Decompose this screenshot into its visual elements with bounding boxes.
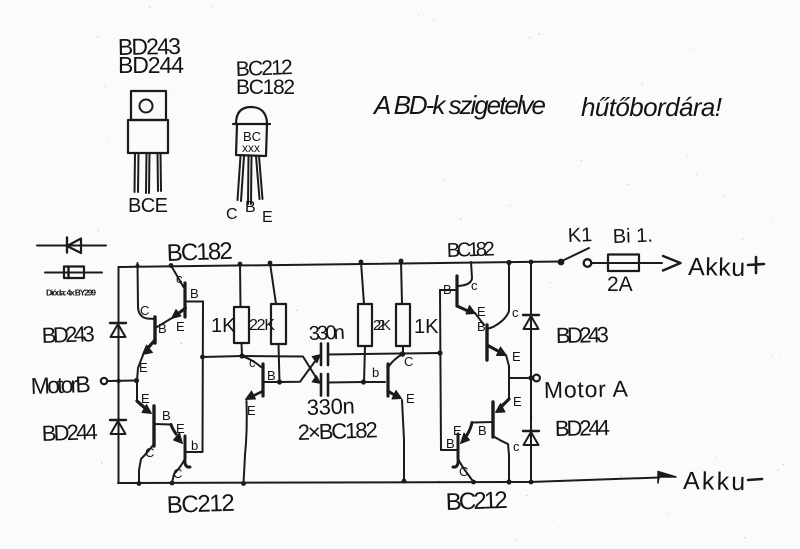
- wire node A to capacitor C2 (crossing diagonal): [242, 356, 319, 382]
- svg-text:Dióda: 4x BY299: Dióda: 4x BY299: [46, 288, 96, 298]
- svg-text:B: B: [162, 408, 171, 423]
- svg-text:Bi 1.: Bi 1.: [612, 225, 653, 248]
- svg-text:MotorB: MotorB: [30, 371, 91, 399]
- svg-text:B: B: [477, 319, 486, 334]
- svg-text:b: b: [372, 365, 379, 380]
- wire top supply bus: [119, 262, 562, 268]
- transistor Q3 base lead: [154, 423, 171, 426]
- svg-text:K1: K1: [567, 224, 592, 247]
- capacitor C1 330n top: [321, 344, 328, 366]
- svg-text:B: B: [478, 423, 487, 438]
- wire node B to right base column: [403, 352, 441, 355]
- svg-text:B: B: [443, 282, 452, 297]
- svg-text:xxx: xxx: [242, 141, 260, 155]
- transistor Q2 BD243 left: collector wire from bus: [138, 263, 156, 319]
- wire right diode column: [530, 262, 532, 482]
- svg-text:C: C: [404, 354, 413, 369]
- svg-text:c: c: [513, 439, 520, 454]
- wire base column left (Q1 base to Q4 base): [202, 302, 205, 453]
- transistor Q9 bar: [491, 402, 494, 437]
- svg-text:330n: 330n: [308, 322, 345, 345]
- transistor Q2 emitter arrow: [147, 340, 155, 349]
- transistor Q4 BC212 bottom-left: emitter arrow: [171, 425, 176, 435]
- transistor Q7 BC182 top-right: collector lead: [459, 262, 473, 286]
- transistor Q3 emitter arrow: [137, 401, 146, 409]
- transistor Q1 bar: [183, 283, 186, 317]
- svg-text:B: B: [267, 368, 276, 383]
- resistor R1 1K left: [234, 264, 249, 356]
- wire Q5 base to capacitor C1 (crossing diagonal): [281, 357, 319, 383]
- transistor Q4 collector lead: [172, 459, 185, 483]
- svg-text:C: C: [140, 303, 149, 318]
- svg-text:E: E: [513, 394, 522, 409]
- transistor Q5 BC182 multivibrator left: collector lead: [242, 356, 261, 367]
- svg-text:hűtőbordára!: hűtőbordára!: [581, 92, 722, 122]
- transistor Q6 emitter arrow: [388, 391, 396, 396]
- transistor Q10 base lead: [441, 449, 458, 451]
- wire Q2 emitter to motor node: [137, 355, 143, 381]
- wire Q7 emitter to Q8 base: [475, 313, 484, 325]
- capacitor C2 330n bottom: [321, 374, 328, 396]
- diode D3 (BD243 right flyback): [523, 315, 539, 329]
- legend diode symbol BY299: [37, 238, 106, 254]
- transistor Q6 BC182 multivibrator right: collector lead: [389, 354, 403, 366]
- transistor Q3 collector lead: [139, 444, 154, 484]
- node right base column junction: [437, 350, 442, 355]
- svg-text:C: C: [145, 445, 154, 460]
- node motor B terminal: [101, 378, 107, 384]
- svg-text:Motor A: Motor A: [544, 376, 629, 403]
- transistor Q5 bar: [261, 364, 264, 396]
- svg-text:E: E: [247, 403, 256, 418]
- svg-text:BC212: BC212: [166, 490, 235, 519]
- transistor Q10 collector lead: [458, 459, 474, 482]
- wire motor B node: [108, 380, 137, 383]
- wire base column right (Q7 base to Q10 base): [440, 290, 441, 450]
- wire switch to fuse to arrow: [592, 262, 662, 264]
- transistor Q10 bar: [453, 434, 458, 467]
- svg-text:b: b: [191, 438, 198, 453]
- svg-text:c: c: [249, 355, 256, 370]
- svg-text:2A: 2A: [607, 273, 633, 296]
- transistor Q7 bar: [455, 276, 458, 306]
- wire Q5 emitter to ground rail: [244, 401, 247, 484]
- TO-220 package drawing (BD243/BD244): [128, 91, 168, 193]
- transistor Q1 base lead: [185, 301, 203, 303]
- svg-text:E: E: [512, 349, 521, 364]
- transistor Q8 emitter arrow: [487, 345, 498, 351]
- diode D4 (BD244 right flyback): [523, 431, 539, 445]
- transistor Q3 BD244 left: emitter wire from motor node: [136, 381, 138, 401]
- diode D1 (BD243 left flyback): [110, 323, 126, 337]
- svg-text:22K: 22K: [373, 317, 391, 334]
- svg-text:BD243: BD243: [41, 321, 95, 348]
- wire node to 1K bottom: [203, 356, 243, 357]
- svg-text:c: c: [471, 278, 478, 293]
- svg-text:C: C: [226, 206, 238, 223]
- wire Q8 emitter to motor A node: [506, 355, 509, 378]
- svg-text:BD244: BD244: [555, 415, 610, 441]
- svg-text:B: B: [446, 436, 455, 451]
- wire bottom ground rail: [118, 478, 659, 484]
- transistor Q7 base lead: [440, 289, 457, 291]
- svg-text:C: C: [173, 466, 182, 481]
- svg-text:Akku: Akku: [683, 467, 745, 496]
- svg-text:E: E: [406, 391, 415, 406]
- svg-text:BC212: BC212: [445, 487, 508, 516]
- svg-text:c: c: [512, 305, 519, 320]
- transistor Q9 base lead: [472, 421, 493, 424]
- transistor Q1 emitter arrow: [175, 308, 186, 316]
- node motor A terminal: [533, 375, 540, 382]
- svg-text:1K: 1K: [414, 316, 439, 338]
- transistor Q7 emitter arrow: [457, 306, 468, 311]
- svg-text:BD243: BD243: [556, 322, 609, 348]
- transistor Q8 bar: [485, 325, 488, 360]
- svg-text:BC182: BC182: [166, 238, 233, 267]
- wire Q1 emitter to Q2 base: [157, 318, 172, 327]
- wire Q6 emitter to ground rail: [402, 400, 404, 481]
- svg-text:C: C: [459, 464, 468, 479]
- svg-text:E: E: [262, 209, 273, 226]
- transistor Q3 bar: [152, 406, 155, 446]
- svg-text:c: c: [176, 271, 183, 286]
- diode D2 (BD244 left flyback): [110, 420, 126, 434]
- svg-text:B: B: [190, 286, 199, 301]
- transistor Q9 BD244 right: emitter wire from motor node: [508, 378, 510, 399]
- svg-text:B: B: [245, 199, 256, 216]
- svg-text:B: B: [158, 321, 167, 336]
- transistor Q6 bar: [386, 364, 389, 396]
- switch K1 contact: [558, 259, 565, 266]
- arrow to Akku minus: [658, 472, 676, 484]
- wire left rail: [118, 267, 120, 483]
- svg-text:BC182: BC182: [236, 76, 295, 99]
- svg-text:E: E: [176, 421, 185, 436]
- svg-text:330n: 330n: [306, 393, 355, 420]
- wire capacitor C1 right to node B: [328, 354, 402, 355]
- transistor Q6 base lead: [363, 381, 385, 383]
- transistor Q2 bar: [153, 317, 156, 343]
- wire capacitor C2 right to Q6 base: [328, 381, 363, 384]
- resistor R4 1K right: [396, 261, 410, 354]
- transistor Q10 BC212 bottom-right: emitter arrow: [467, 423, 472, 436]
- node left base column junction: [200, 355, 205, 360]
- node A junction (Q5 collector / 1K): [239, 353, 244, 358]
- legend diode (rectangle symbol): [45, 267, 102, 279]
- switch K1 open contact: [584, 259, 592, 267]
- svg-text:2×BC182: 2×BC182: [297, 417, 378, 445]
- wire motor A node: [509, 377, 532, 379]
- switch K1 lever: [564, 248, 589, 260]
- svg-text:BD244: BD244: [41, 419, 98, 446]
- transistor Q5 base lead: [263, 381, 281, 383]
- svg-text:B C E: B C E: [128, 195, 168, 217]
- arrow to Akku plus: [663, 256, 681, 271]
- fuse Bi1 2A: [608, 255, 639, 272]
- transistor Q8 BD243 right: collector wire from bus: [487, 263, 509, 330]
- svg-text:22K: 22K: [249, 317, 275, 334]
- resistor R3 22K right: [358, 262, 372, 382]
- transistor Q9 collector lead: [493, 436, 509, 482]
- resistor R2 22K left: [270, 263, 286, 382]
- svg-text:BC182: BC182: [446, 238, 495, 262]
- TO-92 package drawing (BC212/BC182): [233, 107, 270, 204]
- svg-text:1K: 1K: [211, 315, 236, 337]
- node B junction: [400, 351, 406, 357]
- svg-text:A BD-k szigetelve: A BD-k szigetelve: [372, 90, 546, 120]
- svg-text:BD244: BD244: [118, 52, 184, 78]
- transistor Q1 BC182 top-left: collector lead: [171, 266, 184, 288]
- svg-text:E: E: [176, 319, 185, 334]
- transistor Q4 base lead: [186, 451, 202, 453]
- transistor Q4 bar: [185, 436, 190, 467]
- transistor Q9 emitter arrow: [501, 399, 509, 407]
- transistor Q5 emitter arrow: [253, 391, 263, 396]
- svg-text:Akku: Akku: [688, 253, 745, 282]
